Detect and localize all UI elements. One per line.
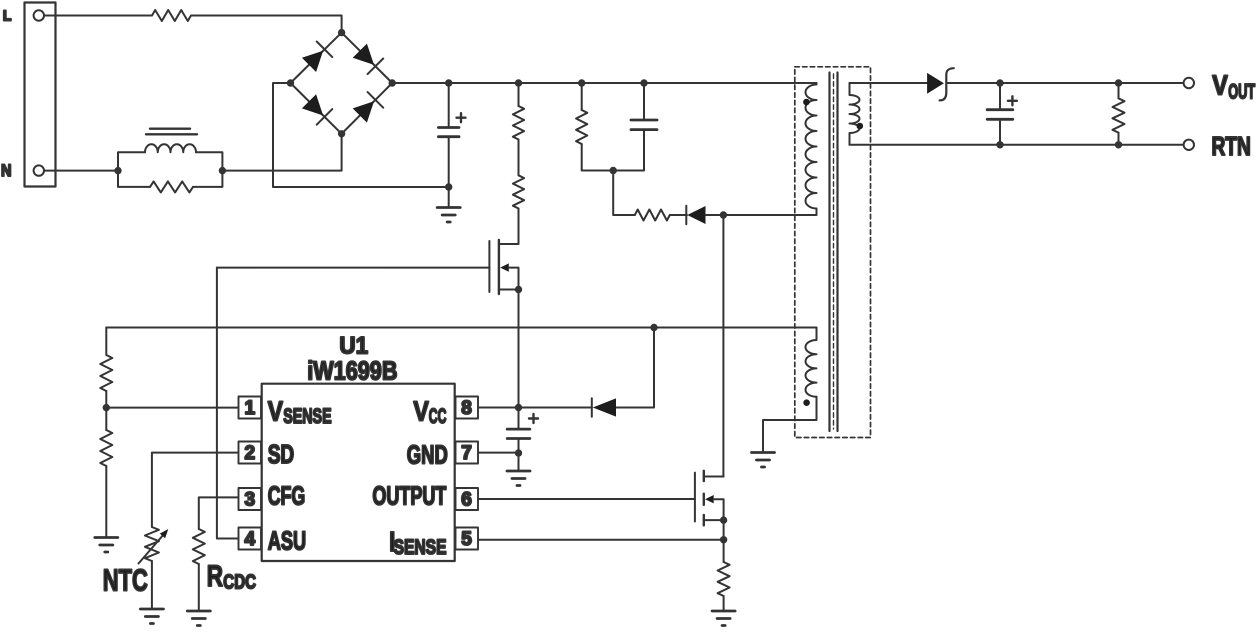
pin 6 box	[456, 488, 479, 510]
transformer core dashed center	[833, 74, 835, 429]
wire L to fuse	[44, 15, 152, 17]
wire pin7 lead	[479, 452, 519, 454]
wire Q1 gate lead	[217, 267, 490, 269]
junction snubber node	[610, 167, 617, 174]
capacitor C snubber	[643, 83, 645, 120]
wire RTN rail	[850, 144, 1184, 146]
transistor Q2 main MOSFET	[695, 471, 724, 526]
svg-text:L: L	[3, 8, 12, 25]
transformer core line left	[828, 73, 830, 432]
junction Q2 source	[720, 516, 727, 523]
junction bridge right	[389, 79, 396, 86]
pin 4 box	[239, 528, 262, 550]
wire aux feedback line	[106, 327, 816, 329]
wire divider to ground	[105, 466, 107, 537]
resistor R divider lower	[100, 430, 112, 466]
svg-text:R: R	[207, 560, 223, 593]
svg-text:8: 8	[461, 398, 472, 419]
bridge diode bottom-left	[302, 94, 323, 115]
pin 3 box	[239, 488, 262, 510]
wire pin5 ISENSE lead	[479, 539, 724, 541]
junction bus startup	[515, 79, 522, 86]
wire bus to R startup 1	[518, 83, 520, 106]
wire pin4 ASU lead	[217, 268, 237, 539]
resistor R damping	[150, 181, 193, 192]
svg-text:7: 7	[461, 443, 472, 464]
svg-text:ASU: ASU	[268, 526, 306, 556]
pin 2 box	[239, 442, 262, 464]
junction divider VSENSE	[103, 404, 110, 411]
junction C out bottom	[996, 141, 1003, 148]
capacitor C output	[999, 83, 1001, 109]
polarity dot primary	[803, 99, 810, 106]
svg-text:V: V	[268, 396, 283, 427]
wire clamp diode to primary node	[706, 209, 817, 216]
ground RCDC	[187, 611, 210, 626]
terminal VOUT circle	[1184, 78, 1194, 88]
resistor R divider upper	[100, 328, 112, 392]
junction ISENSE node	[720, 536, 727, 543]
resistor RCDC	[193, 529, 205, 564]
junction bus snubber R	[578, 79, 585, 86]
wire secondary to output diode	[850, 82, 928, 84]
wire aux bottom to ground	[763, 397, 817, 452]
svg-text:4: 4	[245, 529, 256, 550]
wire VCC diode to VCC node	[519, 407, 592, 409]
junction bridge left	[287, 79, 294, 86]
pin 1 box	[239, 397, 262, 419]
resistor R startup 1	[513, 106, 524, 140]
svg-text:RTN: RTN	[1212, 131, 1251, 161]
wire bus to snubber R	[581, 83, 583, 110]
pin 5 box	[456, 528, 479, 550]
wire filter bottom branch left	[118, 171, 150, 187]
junction Q1 source	[515, 286, 522, 293]
ground auxiliary	[752, 453, 775, 468]
inductor L1 choke	[145, 144, 196, 152]
junction bridge top	[338, 29, 345, 36]
wire snubber R bottom	[582, 144, 614, 171]
svg-text:NTC: NTC	[103, 563, 148, 598]
transformer T1 dashed box	[795, 67, 871, 438]
junction R load top	[1115, 79, 1122, 86]
svg-text:GND: GND	[407, 440, 448, 470]
wire pin6 OUTPUT lead	[479, 498, 695, 500]
resistor R clamp	[635, 210, 670, 221]
pin 7 box	[456, 442, 479, 464]
polarity dot secondary	[857, 123, 864, 130]
terminal RTN circle	[1184, 140, 1194, 150]
pin 8 box	[456, 397, 479, 419]
NTC arrow	[139, 534, 165, 564]
svg-text:CFG: CFG	[268, 481, 306, 511]
wire N to filter	[44, 170, 118, 172]
svg-text:5: 5	[461, 529, 472, 550]
op-amp U1 IC body	[262, 384, 455, 561]
resistor R sense	[718, 562, 730, 596]
wire startup R2 to Q1 drain	[499, 209, 519, 245]
wire switch node down to Q2 drain	[722, 215, 724, 477]
diode D VCC	[591, 398, 593, 416]
svg-text:SD: SD	[268, 439, 295, 469]
junction VCC ground node	[515, 449, 522, 456]
ground sense	[712, 611, 735, 626]
svg-text:V: V	[413, 395, 429, 426]
diode D output schottky	[927, 73, 944, 94]
wire NTC to ground	[151, 561, 153, 609]
polarity dot auxiliary	[803, 399, 810, 406]
wire VCC tap down to diode	[617, 328, 655, 408]
svg-text:SENSE: SENSE	[283, 405, 331, 428]
junction VCC node	[515, 404, 522, 411]
junction bridge bottom	[338, 130, 345, 137]
svg-text:SENSE: SENSE	[394, 536, 447, 559]
svg-text:CDC: CDC	[223, 572, 256, 594]
junction aux VCC tap	[650, 324, 657, 331]
svg-text:3: 3	[245, 490, 256, 511]
svg-text:2: 2	[245, 443, 256, 464]
junction bus snubber C	[640, 79, 647, 86]
junction R load bottom	[1115, 141, 1122, 148]
svg-text:V: V	[1212, 69, 1228, 100]
svg-text:OUT: OUT	[1228, 80, 1255, 103]
ground divider	[95, 538, 118, 553]
junction bus C bulk	[445, 79, 452, 86]
wire between startup resistors	[518, 140, 520, 176]
svg-text:1: 1	[245, 398, 256, 419]
winding primary	[806, 83, 817, 209]
wire pin2 lead to NTC	[152, 453, 237, 527]
wire HV bus	[392, 82, 816, 84]
ground bulk	[437, 208, 460, 223]
wire filter bottom branch right	[193, 171, 222, 187]
bridge BR1 diamond edges	[291, 33, 393, 134]
wire sense resistor to ground	[723, 596, 725, 611]
input terminal block	[25, 3, 56, 187]
thermistor NTC	[145, 527, 159, 561]
resistor R startup 2	[513, 175, 524, 208]
ground NTC	[140, 609, 163, 624]
capacitor C bulk	[448, 83, 450, 127]
junction primary switch node	[720, 211, 727, 218]
wire filter top right	[196, 152, 222, 170]
winding auxiliary	[806, 328, 817, 397]
svg-text:6: 6	[461, 490, 472, 511]
terminal L circle	[34, 10, 44, 20]
wire filter top branch	[118, 152, 145, 170]
wire Q2 source to ISENSE node	[723, 520, 725, 540]
winding secondary	[850, 83, 860, 145]
wire RCDC to ground	[198, 564, 200, 611]
junction C bulk bottom	[445, 183, 452, 190]
transistor Q1 startup MOSFET	[489, 240, 518, 294]
resistor R snubber	[576, 110, 587, 144]
svg-text:CC: CC	[429, 405, 447, 428]
choke core line upper	[150, 127, 190, 129]
capacitor C VCC	[518, 408, 520, 429]
bridge diode top-left	[302, 51, 323, 72]
wire VSENSE lead to pin1	[106, 407, 237, 409]
svg-text:N: N	[1, 161, 12, 180]
wire fuse to bridge top	[191, 16, 342, 33]
choke core line lower	[146, 133, 197, 135]
wire ISENSE node to sense resistor	[723, 540, 725, 562]
ground VCC	[507, 471, 530, 486]
resistor R load	[1118, 83, 1120, 98]
bridge diode top-right	[353, 44, 374, 65]
wire Q1 source to VCC node	[518, 290, 520, 408]
wire pin3 lead to RCDC	[199, 497, 238, 529]
junction filter right	[219, 167, 226, 174]
svg-text:OUTPUT: OUTPUT	[372, 481, 446, 511]
wire clamp R to diode	[670, 214, 687, 216]
wire pin8 lead	[479, 407, 519, 409]
wire bridge left to ground rail	[273, 83, 449, 187]
transformer core line right	[836, 73, 838, 432]
svg-text:iW1699B: iW1699B	[307, 356, 397, 386]
junction C out top	[996, 79, 1003, 86]
diode D clamp	[685, 206, 687, 224]
terminal N circle	[34, 165, 44, 175]
resistor RF fusible	[152, 10, 191, 21]
wire snubber node down to clamp resistor	[613, 171, 635, 216]
wire divider middle	[105, 391, 107, 430]
wire output diode to VOUT terminal	[946, 82, 1183, 84]
bridge diode bottom-right	[353, 101, 374, 122]
junction filter left	[114, 167, 121, 174]
wire N to bridge bottom	[222, 134, 341, 171]
